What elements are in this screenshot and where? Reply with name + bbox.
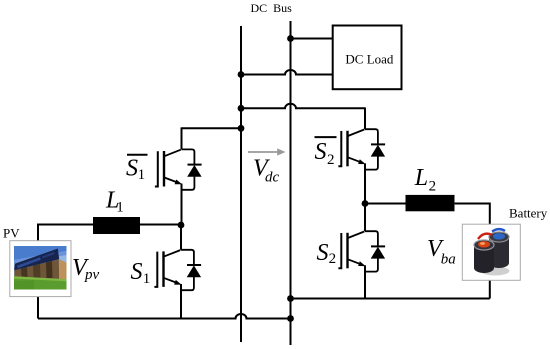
svg-text:2: 2 bbox=[429, 178, 437, 194]
svg-text:dc: dc bbox=[265, 170, 280, 186]
svg-text:pv: pv bbox=[84, 267, 100, 283]
svg-text:S: S bbox=[317, 240, 329, 266]
svg-text:ba: ba bbox=[441, 251, 456, 267]
svg-text:S: S bbox=[126, 156, 138, 182]
svg-text:1: 1 bbox=[143, 271, 151, 287]
svg-text:Battery: Battery bbox=[509, 206, 548, 221]
svg-text:L: L bbox=[414, 165, 428, 191]
svg-text:2: 2 bbox=[327, 152, 335, 168]
svg-text:DC Bus: DC Bus bbox=[251, 1, 293, 15]
svg-text:DC Load: DC Load bbox=[345, 51, 394, 66]
svg-text:S: S bbox=[131, 259, 143, 285]
svg-text:S: S bbox=[315, 139, 327, 165]
svg-text:1: 1 bbox=[116, 200, 124, 216]
svg-text:1: 1 bbox=[138, 167, 146, 183]
svg-text:PV: PV bbox=[3, 226, 20, 241]
svg-text:2: 2 bbox=[329, 251, 337, 267]
